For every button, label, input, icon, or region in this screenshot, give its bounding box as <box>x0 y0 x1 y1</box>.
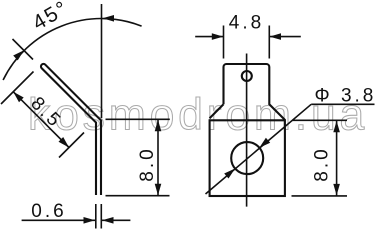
right 8.0 dim: bottom extension line <box>292 195 348 197</box>
svg-text:8.0: 8.0 <box>137 146 158 181</box>
left 8.0 dim: bottom arrowhead <box>155 184 162 196</box>
45 deg dim: vertical extension line <box>101 4 103 118</box>
svg-text:8.0: 8.0 <box>311 146 332 181</box>
0.6 dim: left extension line below tab <box>95 204 97 229</box>
45 deg dim: right arrowhead <box>103 15 115 22</box>
left view: bent tab profile (side view outline) <box>41 64 101 195</box>
8.5 dim: extension line (cap end) <box>1 72 34 105</box>
4.8 dim: left dimension line segment <box>195 36 223 38</box>
svg-text:Φ 3.8: Φ 3.8 <box>315 85 376 106</box>
left 8.0 dim: top extension line <box>106 118 170 120</box>
right view: small hole near top of tab <box>242 71 252 81</box>
0.6 dim: right extension line below tab <box>100 204 102 229</box>
45 deg dim: left arrowhead <box>13 50 24 60</box>
4.8 dim: right dimension line segment <box>270 36 301 38</box>
right view: large hole <box>231 142 263 174</box>
right view: vertical centerline <box>246 54 248 207</box>
svg-text:4.8: 4.8 <box>229 13 264 34</box>
left 8.0 dim: top arrowhead <box>155 120 162 132</box>
0.6 dim: right dimension line segment <box>102 219 130 221</box>
right view: tab front outline (top tab + flare + body) <box>224 64 285 120</box>
4.8 dim: right extension line <box>268 26 270 59</box>
8.5 dim: arrowhead (cap end) <box>13 92 24 103</box>
4.8 dim: left extension line <box>223 26 225 59</box>
4.8 dim: right arrowhead (points left) <box>270 33 282 40</box>
4.8 dim: left arrowhead (points right) <box>212 33 224 40</box>
0.6 dim: left dimension line segment <box>22 219 95 221</box>
phi 3.8 dim: lower arrowhead (points up-right at hole edge) <box>224 169 235 179</box>
8.5 dim: dimension line <box>13 92 69 148</box>
left 8.0 dim: dimension line <box>157 119 159 195</box>
phi 3.8 dim: horizontal shoulder under text <box>311 103 374 105</box>
45 deg dim: arc <box>3 19 142 80</box>
left 8.0 dim: bottom extension line <box>106 195 170 197</box>
right 8.0 dim: top arrowhead <box>333 121 340 133</box>
right 8.0 dim: dimension line <box>336 120 338 196</box>
0.6 dim: left arrowhead (points right) <box>84 217 96 224</box>
0.6 dim: right arrowhead (points left) <box>102 217 114 224</box>
45 deg dim: diagonal extension line <box>13 39 34 60</box>
phi 3.8 dim: diagonal leader line through hole <box>206 104 312 194</box>
right 8.0 dim: top extension line <box>293 119 348 121</box>
svg-text:0.6: 0.6 <box>31 201 66 222</box>
right view: body rectangle <box>210 120 285 196</box>
right 8.0 dim: bottom arrowhead <box>333 184 340 196</box>
8.5 dim: extension line (bend end) <box>59 133 84 158</box>
8.5 dim: arrowhead (bend end) <box>59 137 70 148</box>
phi 3.8 dim: upper arrowhead (points down-left at hole edge) <box>259 138 270 148</box>
